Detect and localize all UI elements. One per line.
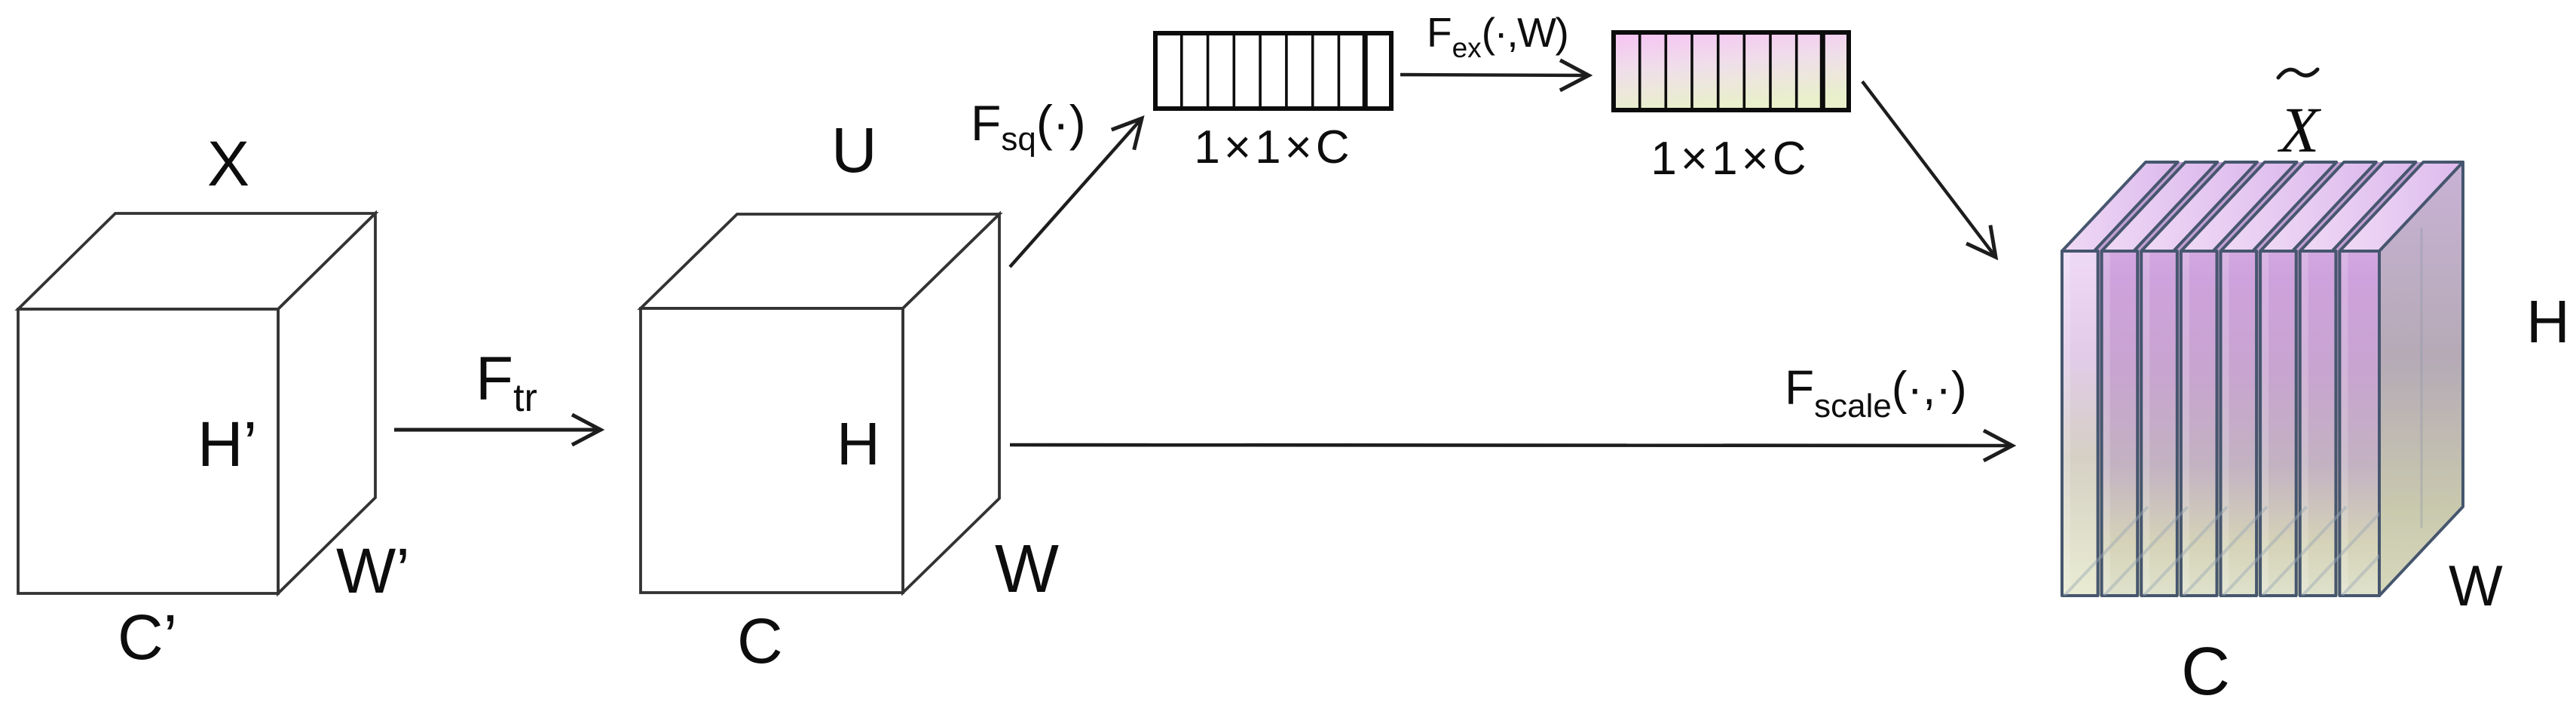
svg-text:W: W bbox=[2449, 554, 2503, 618]
label tilde over X bbox=[2278, 69, 2317, 78]
output slice 8 bbox=[2339, 162, 2463, 596]
arrow F_tr bbox=[394, 428, 601, 432]
cube U side face bbox=[903, 214, 999, 593]
output slice 6 bbox=[2260, 162, 2376, 596]
output slice 3 bbox=[2141, 162, 2257, 596]
white 1x1xC bar bbox=[1155, 33, 1391, 109]
output slice 2 bbox=[2102, 162, 2218, 596]
svg-text:U: U bbox=[831, 115, 877, 185]
svg-text:X: X bbox=[207, 128, 249, 199]
inner slice edge seen through side face bbox=[2421, 228, 2423, 528]
svg-text:W: W bbox=[995, 532, 1059, 607]
svg-text:1×1×C: 1×1×C bbox=[1194, 121, 1353, 173]
svg-text:Fex(·,W): Fex(·,W) bbox=[1427, 9, 1568, 63]
output block background (gaps between slices) bbox=[2062, 162, 2463, 596]
arrow F_sq bbox=[1010, 118, 1142, 267]
svg-text:H: H bbox=[837, 410, 880, 477]
svg-text:W’: W’ bbox=[336, 535, 410, 606]
svg-text:1×1×C: 1×1×C bbox=[1651, 133, 1810, 185]
svg-text:X: X bbox=[2278, 93, 2322, 166]
cube U bbox=[641, 214, 999, 593]
arrow F_ex bbox=[1400, 75, 1589, 75]
cube U top face bbox=[641, 214, 999, 308]
output slice 1 bbox=[2062, 162, 2178, 596]
svg-text:H’: H’ bbox=[197, 409, 257, 480]
cube X top face bbox=[18, 213, 375, 309]
svg-text:C: C bbox=[737, 605, 783, 676]
output slice 5 bbox=[2221, 162, 2337, 596]
svg-text:C’: C’ bbox=[118, 602, 177, 673]
arrow from excitation vector to output block bbox=[1862, 81, 1996, 257]
input cube X bbox=[18, 213, 375, 593]
cube X side face bbox=[278, 213, 375, 593]
output slice 7 bbox=[2300, 162, 2416, 596]
output block top gap area bbox=[2062, 162, 2463, 251]
output slice 4 bbox=[2181, 162, 2297, 596]
colored 1x1xC bar bbox=[1614, 32, 1849, 110]
svg-text:H: H bbox=[2526, 288, 2570, 355]
cube U front face bbox=[641, 308, 903, 593]
arrow F_scale bbox=[1010, 445, 2012, 446]
svg-text:C: C bbox=[2181, 634, 2230, 708]
cube X front face bbox=[18, 309, 278, 593]
